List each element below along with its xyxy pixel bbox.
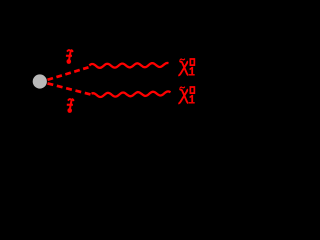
label f-tilde on upper dashed line [66, 50, 74, 64]
label f-tilde on lower dashed line [67, 99, 75, 113]
wire: lower wavy neutralino line [92, 91, 171, 97]
label chi-tilde-1-0 at end of lower wavy line [178, 86, 195, 103]
label chi-tilde-1-0 at end of upper wavy line [178, 58, 195, 75]
wire: lower dashed sfermion propagator f~ [48, 83, 91, 94]
wire: upper wavy neutralino line [89, 63, 168, 68]
interaction vertex blob (gray circle) [33, 74, 47, 88]
wire: upper dashed sfermion propagator f~ [48, 67, 89, 80]
